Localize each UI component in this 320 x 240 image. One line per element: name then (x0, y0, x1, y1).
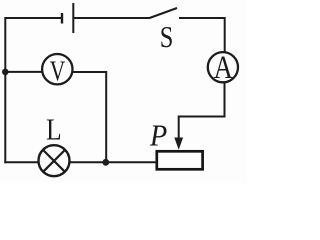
wire: bottom segment lamp to rheostat (69, 161, 157, 163)
rheostat P: slider arrowhead (174, 138, 183, 150)
svg-text:S: S (160, 20, 174, 54)
rheostat P: resistor body rectangle (157, 151, 203, 169)
lamp L: circle (39, 145, 70, 176)
svg-text:V: V (50, 54, 66, 87)
battery cell: long plate (positive) (72, 3, 74, 33)
rheostat P: slider arrow shaft (178, 116, 180, 141)
wire: voltmeter left lead (5, 71, 43, 73)
wire: left vertical rail (4, 17, 6, 163)
svg-text:A: A (214, 49, 234, 85)
ammeter A1: circle (208, 52, 238, 82)
wire: switch right contact to top-right corner and down to ammeter (179, 18, 225, 52)
battery cell: short plate (negative) (61, 13, 63, 24)
junction node: bottom wire / voltmeter drop (102, 159, 109, 166)
lamp L: cross line 1 (43, 150, 65, 172)
wire: top-left horizontal from left rail to battery (5, 17, 62, 19)
voltmeter V1: circle (42, 54, 72, 84)
junction node: left rail voltmeter tap (2, 69, 9, 76)
wire: voltmeter right lead, corner down to bottom wire (72, 72, 106, 162)
svg-text:L: L (46, 113, 62, 147)
switch S: blade (open) (150, 8, 178, 18)
wire: ammeter down, corner left toward rheostat slider (179, 83, 225, 117)
wire: battery to switch left terminal (73, 17, 150, 19)
wire: bottom left segment from rail to lamp (4, 161, 39, 163)
lamp L: cross line 2 (43, 150, 65, 172)
svg-text:P: P (149, 119, 167, 152)
